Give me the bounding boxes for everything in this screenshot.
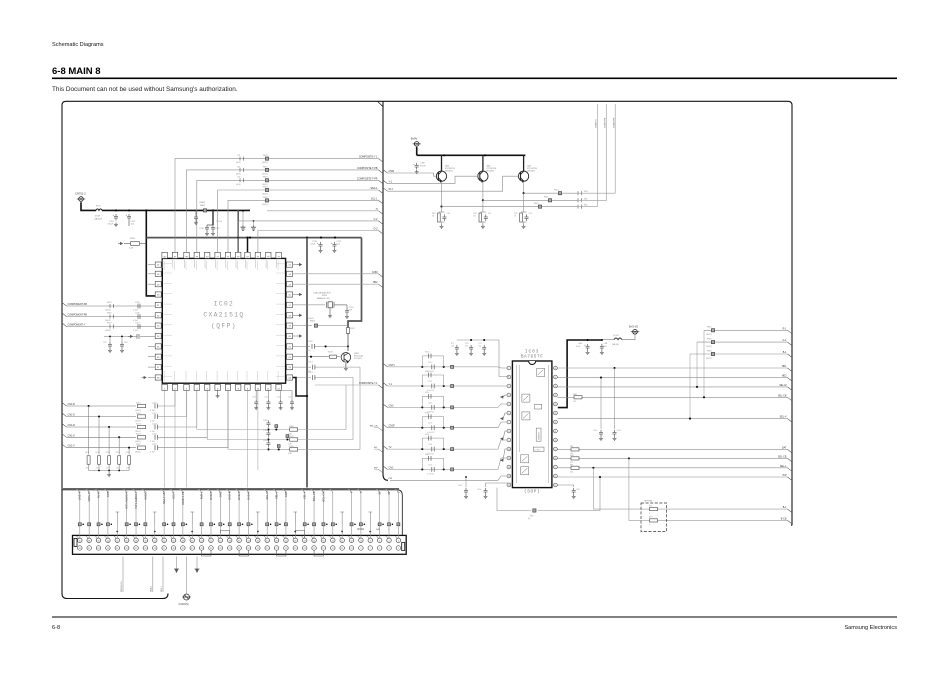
capacitor C240 (345, 308, 349, 315)
svg-text:COMP-PB: COMP-PB (605, 117, 607, 128)
svg-text:CN201(S): CN201(S) (179, 604, 189, 606)
svg-text:C302: C302 (428, 402, 432, 404)
ground (345, 315, 349, 319)
wire ic02 left pin stub (148, 366, 155, 368)
connector pin 39 (218, 546, 223, 551)
svg-text:Schematic Diagrams: Schematic Diagrams (52, 42, 104, 48)
svg-text:68: 68 (88, 540, 90, 542)
svg-text:INT1-AUDIO-L: INT1-AUDIO-L (134, 491, 138, 509)
svg-text:56: 56 (144, 540, 146, 542)
svg-text:64: 64 (107, 540, 109, 542)
ferrite bead (265, 188, 268, 191)
junction (115, 209, 117, 211)
ferrite bead (284, 523, 287, 526)
resistor (240, 157, 244, 161)
ic02 left pin 31 (155, 302, 161, 307)
junction (592, 467, 594, 469)
svg-text:CNM: CNM (372, 271, 377, 274)
svg-text:18: 18 (322, 540, 324, 542)
wire net COMPOSITE-Y 1 (175, 159, 379, 253)
wire bottom jumper hooks (202, 550, 211, 556)
edge stub COMPONENT-PR (62, 303, 67, 307)
ferrite bead (238, 523, 241, 526)
wire (108, 427, 110, 455)
wire net COMPOSITE-Y-1 (315, 384, 379, 386)
ic03 internal switch 2 (522, 394, 530, 402)
svg-text:(160Z): (160Z) (262, 162, 268, 164)
ic02 top pin 47 (276, 252, 281, 258)
resistor (571, 466, 579, 469)
ic02 right pin 24 (287, 375, 293, 380)
svg-text:(160Z): (160Z) (262, 174, 268, 176)
junction (335, 524, 337, 526)
edge stub COMPOSITE-T-PR (379, 180, 384, 184)
ferrite bead (275, 523, 278, 526)
connector pin 19 (312, 546, 317, 551)
svg-text:4.7uF: 4.7uF (150, 431, 156, 433)
svg-text:23: 23 (294, 548, 296, 550)
svg-text:48: 48 (182, 540, 184, 542)
ic03 left pin 3 (507, 384, 511, 388)
wire row 16 extension (104, 335, 133, 337)
svg-text:(100Z): (100Z) (135, 431, 141, 433)
capacitor cluster (469, 345, 473, 352)
ic02 left pin 35 (155, 344, 161, 349)
sheet divider (383, 101, 388, 480)
connector pin 41 (209, 546, 214, 551)
svg-text:CN1-V: CN1-V (68, 445, 76, 448)
ferrite bead (266, 523, 269, 526)
wire NF stub (293, 294, 297, 296)
svg-text:DVD-G: DVD-G (237, 492, 241, 500)
svg-text:R300: R300 (425, 352, 429, 354)
ground (481, 225, 485, 229)
wire net CN1-B (67, 405, 137, 407)
wire rc loop (422, 396, 443, 407)
svg-text:SDA-T-MH: SDA-T-MH (162, 491, 166, 504)
ferrite bead FB65 (533, 509, 536, 512)
svg-text:4.7uF: 4.7uF (150, 452, 156, 454)
power entry CN701-2 (77, 197, 85, 202)
wire (182, 526, 184, 538)
ic03 internal switch 4 (521, 455, 529, 463)
connector pin 46 (190, 538, 195, 543)
capacitor C706 (205, 225, 209, 232)
junction (341, 531, 343, 533)
wire (229, 526, 231, 538)
svg-text:FB21: FB21 (263, 177, 268, 179)
junction (270, 524, 272, 526)
wire net D-2 (258, 231, 379, 253)
chassis arrow down (195, 569, 200, 572)
svg-text:4MHz(CL-12): 4MHz(CL-12) (317, 298, 330, 300)
ferrite bead (200, 523, 203, 526)
ferrite bead (548, 199, 551, 202)
inductor FL02 (614, 338, 622, 340)
wire (314, 345, 348, 347)
connector pin 56 (143, 538, 148, 543)
svg-text:25: 25 (285, 548, 287, 550)
capacitor loop a (429, 354, 431, 359)
wire net Y-1 (388, 385, 508, 387)
ferrite bead (265, 179, 268, 182)
ferrite bead (125, 523, 128, 526)
edge stub CN1-R (62, 424, 67, 428)
junction (421, 366, 423, 368)
resistor R230 (87, 456, 90, 465)
junction (306, 395, 308, 397)
wire ic02 left pin stub (148, 283, 155, 285)
connector pin 2 (396, 538, 401, 543)
svg-text:SDA-1: SDA-1 (370, 187, 378, 190)
svg-text:69: 69 (79, 548, 81, 550)
svg-text:C663: C663 (617, 430, 621, 432)
junction (421, 448, 423, 450)
svg-text:CN3: CN3 (389, 404, 394, 407)
connector pin 59 (124, 546, 128, 551)
connector pin 9 (359, 546, 364, 551)
wire net HD2 (557, 377, 787, 379)
connector pin 69 (78, 546, 83, 551)
capacitor (155, 425, 157, 430)
ground (586, 351, 590, 355)
ic02 left pin 30 (155, 292, 161, 297)
ic03 right pin 22 (554, 420, 558, 424)
wire collector bus (417, 154, 526, 156)
svg-text:C281: C281 (263, 430, 268, 432)
edge stub CN3 (383, 404, 388, 408)
junction (101, 524, 103, 526)
svg-text:C235: C235 (135, 302, 140, 304)
ic02 right pin 21 (287, 344, 293, 349)
svg-text:C689: C689 (458, 485, 462, 487)
wire cluster top (457, 340, 509, 377)
wire emitter (523, 182, 525, 193)
svg-text:SEL-Y: SEL-Y (303, 491, 307, 499)
ic02 right pin 17 (287, 302, 293, 307)
svg-text:R232: R232 (106, 452, 110, 454)
capacitor (138, 314, 140, 319)
wire (98, 417, 100, 455)
svg-text:SEL-V: SEL-V (274, 491, 278, 499)
wire (439, 211, 445, 213)
capacitor (155, 414, 157, 419)
connector pin 3 (387, 546, 392, 551)
edge stub CNT1 (383, 363, 388, 367)
chassis arrow (500, 396, 503, 398)
edge stub B-CB (788, 520, 793, 524)
ic02 bottom pin 8 (236, 384, 241, 390)
wire base net Q07 (388, 176, 519, 191)
wire drop to B-1 (593, 468, 787, 509)
svg-text:SEL-V: SEL-V (780, 416, 787, 419)
connector pin 40 (218, 538, 223, 543)
capacitor main (432, 365, 434, 370)
svg-text:32: 32 (257, 540, 259, 542)
resistor (138, 436, 146, 439)
connector pin 18 (321, 538, 326, 543)
svg-text:SCL-1: SCL-1 (371, 197, 378, 200)
wire (318, 325, 348, 327)
svg-text:C691: C691 (576, 489, 580, 491)
svg-text:MAIN-IN: MAIN-IN (87, 491, 91, 501)
svg-text:R61: R61 (570, 464, 573, 466)
junction (482, 199, 484, 201)
svg-text:(0): (0) (528, 518, 531, 520)
ic03 right pin 19 (554, 447, 558, 451)
svg-text:FB11: FB11 (544, 197, 548, 199)
wire collector drop Q06 (441, 155, 443, 171)
svg-text:C300: C300 (428, 362, 432, 364)
wire (416, 147, 418, 155)
svg-text:9: 9 (360, 548, 361, 550)
capacitor loop a (429, 436, 431, 441)
connector pin 53 (153, 546, 158, 551)
svg-text:31: 31 (257, 548, 259, 550)
connector pin 50 (171, 538, 176, 543)
svg-text:HD2: HD2 (373, 281, 378, 284)
svg-text:Samsung Electronics: Samsung Electronics (844, 625, 897, 631)
wire (210, 526, 212, 538)
divider left ticks (379, 428, 384, 432)
junction (82, 524, 84, 526)
connector pin 12 (349, 538, 354, 543)
svg-text:(ST)(ST): (ST)(ST) (527, 171, 535, 173)
resistor (138, 446, 146, 449)
svg-text:3: 3 (508, 386, 509, 388)
junction (696, 386, 698, 388)
svg-text:29: 29 (266, 548, 268, 550)
svg-text:6: 6 (508, 413, 509, 415)
wire (480, 211, 486, 213)
wire (238, 526, 240, 538)
svg-text:470uF: 470uF (108, 224, 114, 226)
capacitor C710 (319, 242, 323, 249)
svg-text:47uF: 47uF (311, 244, 316, 246)
wire (157, 390, 186, 416)
junction (257, 531, 259, 533)
capacitor C6A (586, 344, 590, 351)
edge stub D-2 (379, 231, 384, 235)
junction (223, 524, 225, 526)
ground (522, 225, 526, 229)
connector pin 5 (377, 546, 382, 551)
svg-text:(100Z): (100Z) (135, 441, 141, 443)
ic02 right pin 16 (287, 292, 293, 297)
ferrite bead (265, 157, 268, 160)
wire 5V bus (146, 237, 361, 239)
connector pin 68 (87, 538, 92, 543)
wire top jumper hooks (220, 531, 229, 539)
svg-text:CN1-B: CN1-B (68, 403, 76, 406)
junction (191, 531, 193, 533)
connector pin 4 (387, 538, 392, 543)
capacitor C662 (599, 430, 603, 437)
wire vertical link (689, 354, 691, 419)
resistor (520, 213, 523, 222)
ic02 top pin 44 (245, 252, 250, 258)
svg-text:2: 2 (508, 377, 509, 379)
svg-text:65: 65 (97, 548, 99, 550)
connector pin 67 (87, 546, 92, 551)
ic03 right pin 27 (554, 375, 558, 379)
wire (346, 305, 348, 308)
wire to chassis (196, 557, 198, 570)
header rule (52, 78, 897, 80)
svg-text:(50V): (50V) (236, 184, 241, 186)
junction (118, 436, 120, 438)
wire net Y2 (388, 440, 508, 449)
ic03 left pin 6 (507, 411, 511, 415)
svg-text:OPTION: OPTION (644, 501, 652, 503)
wire rc loop (422, 356, 443, 367)
svg-text:5: 5 (379, 548, 380, 550)
ic03 right pin 23 (554, 411, 558, 415)
wire main B+ bus (102, 209, 250, 211)
wire emitter run (483, 199, 577, 201)
ferrite bead (181, 523, 184, 526)
junction (354, 524, 356, 526)
connector pin 25 (284, 546, 289, 551)
junction (689, 418, 691, 420)
wire nc stub (153, 512, 157, 524)
wire net CN1-V (67, 447, 137, 449)
svg-text:(1A,3S): (1A,3S) (612, 343, 619, 346)
ic02 left pin 37 (155, 365, 161, 370)
svg-text:FB21: FB21 (263, 155, 268, 157)
wire nc stub (368, 512, 372, 524)
svg-text:C282: C282 (263, 440, 268, 442)
wire thick vertical to video cluster (348, 238, 362, 334)
capacitor C690 (486, 483, 513, 487)
capacitor C214 (293, 366, 311, 368)
capacitor C242 (312, 344, 314, 349)
wire thick feed to IC02 pin 4 (146, 210, 160, 296)
svg-text:60: 60 (126, 540, 128, 542)
svg-text:SCL-T: SCL-T (171, 491, 175, 499)
resistor R233 (118, 456, 121, 465)
svg-text:C217: C217 (103, 342, 107, 344)
svg-text:C11: C11 (488, 213, 491, 215)
wire ic03 gnd stub (503, 395, 507, 397)
svg-text:C301: C301 (428, 381, 432, 383)
svg-text:AUDIO: AUDIO (143, 492, 147, 500)
wire net CN3F (388, 422, 508, 428)
junction (249, 237, 251, 239)
junction (306, 237, 308, 239)
svg-text:44: 44 (201, 540, 203, 542)
svg-text:CN1-S: CN1-S (68, 434, 76, 437)
connector pin 36 (237, 538, 242, 543)
ic02 left pin 36 (155, 354, 161, 359)
capacitor cluster (482, 345, 486, 352)
junction (310, 356, 312, 358)
wire ic02 left pin stub (148, 356, 155, 358)
wire (267, 445, 269, 449)
transistor Q07 (519, 171, 529, 182)
ground (114, 223, 118, 227)
wire net HD1 (557, 367, 787, 369)
svg-text:COMPONENT-PB: COMPONENT-PB (68, 314, 88, 317)
wire emitter (441, 182, 443, 207)
ground (328, 314, 332, 318)
svg-text:(ST)(ST): (ST)(ST) (445, 171, 453, 173)
edge stub COMPOSITE-T-PB (379, 170, 384, 174)
svg-text:4.7uF: 4.7uF (133, 309, 139, 311)
svg-text:(ST)(ST): (ST)(ST) (486, 171, 494, 173)
wire pn row (390, 476, 507, 480)
svg-text:40: 40 (219, 540, 221, 542)
svg-text:(160Z): (160Z) (105, 309, 111, 311)
edge stub CN1-G (62, 413, 67, 417)
wire ic02 GND2 stub (293, 264, 297, 266)
svg-text:GND: GND (106, 491, 110, 497)
capacitor C707 (211, 225, 215, 232)
chassis arrow (297, 293, 302, 295)
wire (337, 356, 341, 358)
edge stub B-1 (788, 509, 793, 512)
svg-text:R243: R243 (328, 351, 333, 353)
svg-text:36: 36 (238, 540, 240, 542)
svg-text:This Document can not be used: This Document can not be used without Sa… (52, 86, 238, 93)
ic03 internal bgp (535, 404, 542, 409)
connector pin 26 (284, 538, 289, 543)
svg-text:R225: R225 (136, 444, 141, 446)
wire emitter run (442, 206, 578, 208)
junction (98, 470, 100, 472)
svg-text:R231: R231 (95, 452, 99, 454)
edge stub CN2 (383, 466, 388, 470)
svg-text:C213: C213 (308, 372, 313, 374)
junction (251, 524, 253, 526)
svg-text:7: 7 (508, 422, 509, 424)
svg-text:104: 104 (478, 346, 481, 348)
resistor (290, 438, 298, 441)
wire (118, 437, 120, 454)
svg-text:2: 2 (398, 540, 399, 542)
svg-text:R224: R224 (136, 434, 141, 436)
svg-text:C214: C214 (308, 362, 313, 364)
chassis arrow (500, 417, 503, 419)
svg-text:6-8: 6-8 (52, 625, 60, 631)
svg-text:(160Z): (160Z) (262, 204, 268, 206)
junction (128, 209, 130, 211)
svg-text:6: 6 (379, 540, 380, 542)
svg-text:GND: GND (218, 491, 222, 497)
svg-text:46: 46 (191, 540, 193, 542)
junction (275, 428, 277, 430)
svg-text:C305: C305 (428, 464, 432, 466)
svg-text:14: 14 (341, 540, 343, 542)
svg-text:H: H (376, 208, 378, 211)
svg-text:53: 53 (154, 548, 156, 550)
wire (276, 526, 278, 538)
junction (167, 524, 169, 526)
svg-text:FL01: FL01 (96, 206, 102, 208)
svg-text:4.7uF: 4.7uF (150, 410, 156, 412)
svg-text:R282: R282 (289, 446, 294, 448)
connector pin 23 (293, 546, 298, 551)
svg-text:(160Z): (160Z) (706, 358, 712, 360)
ferrite bead (265, 199, 268, 202)
wire net DAT (557, 448, 787, 450)
connector pin 51 (162, 546, 167, 551)
svg-text:27: 27 (276, 548, 278, 550)
connector pin 14 (340, 538, 345, 543)
ic03 internal logic (533, 447, 544, 451)
junction (421, 468, 423, 470)
svg-text:28: 28 (276, 540, 278, 542)
